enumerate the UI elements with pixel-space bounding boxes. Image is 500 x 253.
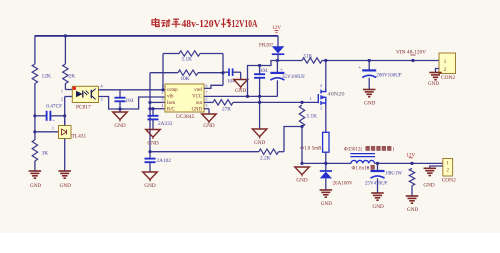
node junction RC [148, 107, 151, 110]
svg-text:104: 104 [260, 68, 268, 74]
svg-text:+: + [280, 68, 283, 73]
wire out [204, 101, 213, 103]
wire drain [325, 61, 327, 91]
node junction 10K rail [221, 71, 224, 74]
capacitor C 104 at PC817 [119, 90, 121, 98]
resistor R 2.2K [259, 149, 279, 154]
wire 10K left [150, 72, 178, 74]
wire PC817 pin2 drop [65, 96, 73, 98]
node junction sense bus [148, 150, 151, 153]
wire Isen [150, 101, 165, 103]
svg-text:CON2: CON2 [441, 75, 455, 81]
svg-text:5.1K: 5.1K [307, 114, 318, 120]
wire top 12V bus [35, 35, 278, 37]
node junction diode top [324, 162, 327, 165]
svg-text:R/C: R/C [167, 107, 175, 112]
transistor Q 40N20 [318, 89, 326, 106]
svg-text:2A102: 2A102 [157, 158, 172, 164]
title text 电动车48v-120V转12V10A [152, 18, 159, 27]
resistor R 10K [178, 70, 198, 75]
capacitor C 2A333 [152, 109, 154, 116]
connector J CON2 input [439, 53, 456, 74]
node junction cap-TL431 [63, 114, 66, 117]
ground GND under 2A333 [146, 130, 161, 138]
svg-text:48v-120V: 48v-120V [182, 18, 221, 30]
svg-text:1: 1 [309, 96, 311, 101]
svg-text:104: 104 [126, 98, 134, 104]
wire 10K1W gnd [411, 186, 413, 196]
resistor R 12K [32, 64, 37, 84]
svg-text:GND: GND [192, 107, 203, 112]
ic U UC3845 [165, 84, 204, 112]
svg-text:1: 1 [52, 126, 54, 131]
svg-text:2A333: 2A333 [158, 121, 173, 127]
wire UC GND stub [204, 108, 209, 110]
wire TL431 ref [35, 131, 59, 133]
wire source [325, 105, 327, 132]
svg-text:3: 3 [162, 97, 164, 101]
wire RC [150, 108, 165, 110]
node junction output cap [376, 162, 379, 165]
wire 5.1K bottom to 2.2K [284, 127, 302, 152]
svg-text:2: 2 [162, 91, 164, 95]
wire 10K right [198, 72, 223, 74]
svg-text:GND: GND [364, 101, 375, 107]
svg-text:20A100V: 20A100V [333, 181, 353, 187]
ground bars CON2 output [424, 167, 437, 169]
capacitor C 104 vcc [259, 66, 261, 74]
resistor R 5.1K gate [299, 105, 304, 127]
wire 51K left [277, 60, 302, 62]
svg-text:GND: GND [30, 183, 41, 189]
svg-text:3K: 3K [42, 151, 49, 157]
diode D FR207 [272, 46, 285, 53]
svg-text:+: + [358, 66, 361, 71]
svg-text:GND: GND [423, 183, 434, 189]
wire switch node [302, 162, 351, 164]
wire FR207 top [277, 36, 279, 46]
node junction gate 5.1K [300, 101, 303, 104]
svg-text:GND: GND [144, 183, 155, 189]
svg-text:1: 1 [61, 89, 63, 94]
svg-text:3: 3 [320, 107, 322, 111]
svg-text:0.47CF: 0.47CF [46, 104, 62, 110]
wire output [375, 162, 443, 164]
svg-text:CON2: CON2 [442, 177, 456, 183]
svg-text:GND: GND [235, 88, 246, 94]
ground GND under UC3845 [202, 114, 217, 122]
wire gnd drop from caps [259, 96, 261, 129]
svg-text:1: 1 [162, 84, 164, 88]
svg-text:GND: GND [203, 123, 214, 129]
node junction switch node [300, 162, 303, 165]
svg-text:12V10A: 12V10A [232, 18, 258, 30]
svg-text:TL431: TL431 [72, 134, 87, 140]
wire vref S-bend [204, 85, 223, 88]
svg-text:FR207: FR207 [259, 43, 274, 49]
svg-text:2K: 2K [69, 74, 76, 80]
ground bars under TL431 [58, 170, 70, 172]
svg-text:out: out [196, 101, 203, 106]
svg-text:35V100UF: 35V100UF [282, 74, 305, 80]
svg-text:40N20: 40N20 [328, 92, 346, 98]
svg-text:vfb: vfb [167, 95, 174, 100]
wire gate stub [317, 101, 318, 103]
node junction left rail cap [33, 114, 36, 117]
node junction VCC diode [276, 59, 279, 62]
node junction 104 lead [118, 107, 121, 110]
resistor R 10K/1W [409, 168, 414, 185]
resistor R 2K [63, 64, 68, 84]
capacitor C 35V100UF [276, 61, 278, 73]
wire sense bus [150, 151, 259, 153]
wire left rail upper [34, 35, 36, 64]
node junction 12V out [410, 162, 413, 165]
ground bars under 200V100UF [363, 89, 376, 91]
ground bars under 3K [29, 170, 42, 172]
node junction gate wire crossing [258, 101, 261, 104]
svg-text:200V100UF: 200V100UF [376, 72, 402, 78]
svg-text:25V470UF: 25V470UF [365, 181, 388, 186]
diode D 20A100V [325, 163, 327, 170]
svg-text:10K: 10K [181, 76, 190, 82]
svg-text:vref: vref [194, 88, 202, 93]
node junction left rail TL431 [33, 130, 36, 133]
ground bars under 25V470UF [371, 192, 384, 194]
ground GND caps [252, 129, 267, 137]
wire sense to node [325, 152, 327, 163]
svg-text:27R: 27R [222, 107, 231, 113]
ground GND vref bypass [234, 80, 248, 88]
ground GND under 104 [113, 112, 128, 120]
wire FR207 bottom [277, 54, 279, 60]
svg-text:GND: GND [60, 183, 71, 189]
svg-text:): ) [393, 146, 395, 153]
optocoupler U PC817 [72, 86, 98, 102]
node junction drain [324, 59, 327, 62]
wire CON2out pin2 gnd [430, 166, 443, 168]
wire VCC jog [248, 61, 278, 97]
node junction 104c top [258, 64, 261, 67]
svg-text:GND: GND [296, 178, 307, 184]
connector J CON2 output [443, 159, 453, 177]
svg-text:5.1K: 5.1K [182, 57, 193, 63]
wire 2K rail [64, 35, 66, 64]
svg-text:5: 5 [206, 104, 208, 108]
svg-text:GND: GND [428, 81, 439, 87]
wire 5.1K loop top [163, 53, 179, 55]
svg-text:GND: GND [147, 141, 158, 147]
svg-text:Φ1.0 5mR: Φ1.0 5mR [300, 145, 322, 151]
node junction 5.1K bottom [300, 125, 303, 128]
wire out to gate [233, 101, 317, 103]
svg-text:UC3845: UC3845 [176, 114, 195, 120]
svg-text:GND: GND [321, 201, 332, 207]
wire PC817 pin4 to comp [99, 89, 166, 91]
capacitor C 0.47CF [46, 111, 48, 121]
svg-text:6: 6 [206, 97, 208, 101]
svg-text:2: 2 [61, 97, 63, 102]
capacitor C 25V470UF [377, 163, 379, 170]
wire comp drop [162, 54, 164, 90]
wire 3K to ground [34, 161, 36, 171]
capacitor C 2A102 [149, 152, 151, 159]
wire CON2in pin2 gnd [436, 69, 440, 73]
ground bars under 20A100V [320, 189, 333, 191]
capacitor C 104 vref [223, 71, 229, 73]
svg-text:GND: GND [407, 207, 418, 213]
svg-text:4: 4 [162, 104, 164, 108]
wire 0.47CF left [35, 115, 46, 117]
node junction bus-2K [64, 34, 67, 37]
resistor R 3K [32, 140, 37, 161]
svg-text:GND: GND [114, 123, 125, 129]
capacitor C 200V100UF [368, 61, 370, 71]
regulator U TL431 [59, 126, 72, 139]
svg-text:4: 4 [320, 84, 322, 88]
svg-text:+: + [367, 167, 370, 172]
wire right rail vref [222, 54, 224, 86]
inductor L output [351, 160, 375, 163]
ground bars under 10K1W [406, 195, 419, 197]
svg-text:7: 7 [206, 91, 208, 95]
wire main vertical x150 [149, 73, 151, 152]
wire PC817 pin3 U-path [99, 97, 166, 110]
svg-text:Isen: Isen [167, 101, 176, 106]
svg-text:GND: GND [254, 140, 265, 146]
wire VIN bus [322, 60, 439, 62]
ground GND switch [295, 167, 310, 175]
wire 2.2K right [279, 151, 285, 153]
svg-text:3: 3 [101, 97, 103, 102]
wire 0.47CF right [50, 115, 64, 117]
node junction 2A333 tap [151, 107, 154, 110]
svg-text:comp: comp [167, 88, 178, 93]
resistor R 27R [213, 100, 233, 105]
svg-text:Φ33012(: Φ33012( [344, 146, 362, 153]
svg-text:12K: 12K [42, 74, 52, 80]
ground bars CON2 input [429, 72, 442, 74]
svg-text:10K/1W: 10K/1W [385, 172, 402, 177]
svg-text:GND: GND [372, 204, 383, 210]
svg-text:2.2K: 2.2K [260, 156, 271, 162]
resistor R 51K [302, 58, 322, 63]
node junction input cap [368, 59, 371, 62]
svg-text:51K: 51K [304, 54, 313, 60]
wire VCC [204, 95, 277, 97]
wire TL431 cathode [64, 116, 66, 126]
wire 2K to PC817 pin1 [64, 84, 66, 90]
svg-text:PC817: PC817 [76, 105, 91, 111]
wire gnd drop2 [301, 127, 303, 164]
ground GND under 2A102 [143, 172, 158, 180]
resistor R sense 5mR [323, 132, 329, 152]
node junction comp [161, 88, 164, 91]
node junction vcc rail [246, 95, 249, 98]
node junction Isen [148, 101, 151, 104]
node junction 104c bottom [258, 95, 261, 98]
wire left rail mid [34, 84, 36, 140]
wire TL431 anode to ground [64, 139, 66, 172]
node junction VIN label [411, 59, 414, 62]
resistor R 5.1K [179, 51, 200, 56]
svg-text:VCC: VCC [192, 95, 202, 100]
